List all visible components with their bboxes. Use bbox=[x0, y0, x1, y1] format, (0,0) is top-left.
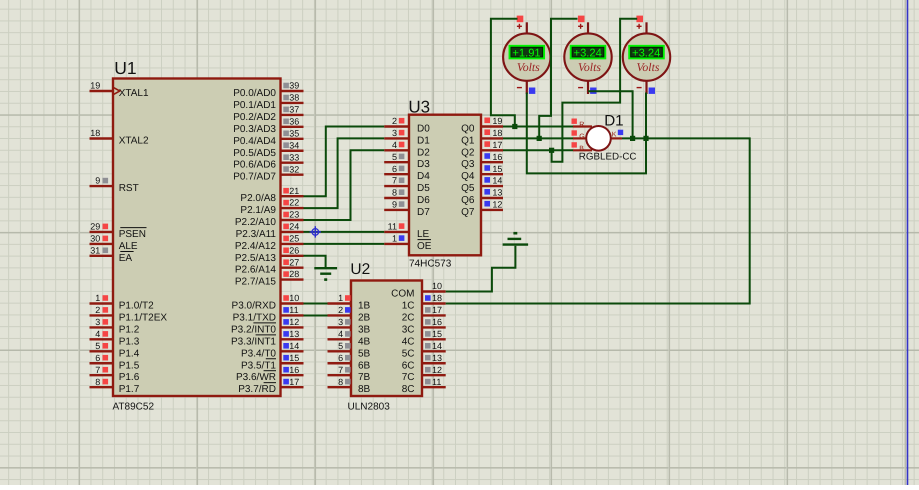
svg-text:U2: U2 bbox=[350, 261, 370, 278]
svg-text:P2.5/A13: P2.5/A13 bbox=[235, 253, 277, 264]
svg-text:AT89C52: AT89C52 bbox=[113, 401, 155, 412]
svg-text:U1: U1 bbox=[114, 58, 136, 78]
svg-text:OE: OE bbox=[417, 241, 432, 252]
svg-text:32: 32 bbox=[289, 164, 299, 174]
svg-text:12: 12 bbox=[492, 200, 502, 210]
svg-text:28: 28 bbox=[289, 269, 299, 279]
svg-text:P0.2/AD2: P0.2/AD2 bbox=[233, 112, 276, 123]
svg-text:P3.4/T0: P3.4/T0 bbox=[241, 348, 276, 359]
U1 pin 14 P3.4/T0 bbox=[241, 341, 304, 359]
wire VM2 - to node K bbox=[588, 91, 633, 138]
U2 pin 14 5C bbox=[402, 341, 446, 359]
U1 pin 7 P1.6 bbox=[90, 365, 140, 383]
sheet edge border (blue) bbox=[907, 0, 909, 485]
svg-text:P1.4: P1.4 bbox=[119, 348, 140, 359]
svg-text:6B: 6B bbox=[358, 360, 371, 371]
U1 pin 11 P3.1/TXD bbox=[233, 305, 304, 323]
svg-text:10: 10 bbox=[432, 281, 442, 291]
svg-text:4: 4 bbox=[392, 140, 397, 150]
svg-text:27: 27 bbox=[289, 257, 299, 267]
U1 pin 22 P2.1/A9 bbox=[240, 198, 303, 216]
node B junction bbox=[549, 148, 554, 153]
svg-text:5: 5 bbox=[392, 152, 397, 162]
svg-text:P2.2/A10: P2.2/A10 bbox=[235, 217, 277, 228]
U2 pin 12 7C bbox=[402, 365, 446, 383]
svg-text:P3.3/INT1: P3.3/INT1 bbox=[231, 336, 276, 347]
svg-text:31: 31 bbox=[90, 245, 100, 255]
U1 pin 1 P1.0/T2 bbox=[90, 293, 155, 311]
svg-text:COM: COM bbox=[391, 289, 414, 300]
svg-text:7C: 7C bbox=[402, 372, 415, 383]
svg-text:11: 11 bbox=[432, 377, 441, 387]
U2 pin 8 8B bbox=[328, 377, 371, 395]
svg-text:3: 3 bbox=[392, 128, 397, 138]
U1 pin 31 EA bbox=[90, 245, 134, 263]
U3 pin 4 D2 bbox=[384, 140, 430, 158]
svg-text:5B: 5B bbox=[358, 348, 371, 359]
svg-text:8: 8 bbox=[392, 188, 397, 198]
U3 pin 7 D5 bbox=[384, 176, 430, 194]
svg-text:12: 12 bbox=[289, 317, 299, 327]
svg-text:P0.1/AD1: P0.1/AD1 bbox=[233, 100, 276, 111]
svg-text:3C: 3C bbox=[402, 324, 415, 335]
svg-text:R: R bbox=[579, 122, 584, 129]
svg-text:D3: D3 bbox=[417, 159, 430, 170]
U1 pin 19 XTAL1 bbox=[90, 81, 149, 99]
svg-text:18: 18 bbox=[432, 293, 442, 303]
svg-text:Volts: Volts bbox=[637, 60, 660, 74]
svg-text:1: 1 bbox=[95, 293, 100, 303]
svg-text:30: 30 bbox=[90, 234, 100, 244]
svg-text:ULN2803: ULN2803 bbox=[348, 401, 391, 412]
svg-text:P3.0/RXD: P3.0/RXD bbox=[232, 301, 276, 312]
wire P2.4/A12 to U3 OE bbox=[304, 243, 385, 245]
svg-text:5: 5 bbox=[95, 341, 100, 351]
svg-text:+1.91: +1.91 bbox=[512, 47, 540, 59]
U2 pin 3 3B bbox=[328, 317, 371, 335]
svg-text:Q2: Q2 bbox=[461, 147, 475, 158]
U1 pin 36 P0.3/AD3 bbox=[233, 116, 303, 134]
svg-text:ALE: ALE bbox=[119, 241, 138, 252]
svg-text:2B: 2B bbox=[358, 312, 371, 323]
voltmeter VM1 (++1.91 Volts) bbox=[503, 16, 550, 94]
svg-text:22: 22 bbox=[289, 198, 299, 208]
svg-text:3B: 3B bbox=[358, 324, 371, 335]
U1 pin 8 P1.7 bbox=[90, 377, 140, 395]
svg-text:14: 14 bbox=[492, 176, 502, 186]
svg-text:19: 19 bbox=[90, 81, 100, 91]
node G junction bbox=[537, 136, 542, 141]
wire P2.1/A9 to U3 D1 bbox=[304, 138, 385, 208]
U3 pin 17 Q2 bbox=[461, 140, 503, 158]
U1 pin 3 P1.2 bbox=[90, 317, 140, 335]
svg-text:2: 2 bbox=[95, 305, 100, 315]
svg-text:7: 7 bbox=[392, 176, 397, 186]
D1 value label RGBLED-CC bbox=[579, 152, 637, 163]
U1 pin 16 P3.6/WR bbox=[236, 365, 304, 383]
U3 pin 5 D3 bbox=[384, 152, 430, 170]
svg-text:P2.7/A15: P2.7/A15 bbox=[235, 277, 277, 288]
svg-text:4B: 4B bbox=[358, 336, 371, 347]
U3 value label 74HC573 bbox=[409, 258, 452, 269]
svg-text:10: 10 bbox=[289, 293, 299, 303]
U2 pin 13 6C bbox=[402, 353, 446, 371]
svg-text:D4: D4 bbox=[417, 171, 430, 182]
svg-text:P2.6/A14: P2.6/A14 bbox=[235, 265, 277, 276]
svg-text:13: 13 bbox=[492, 188, 502, 198]
wire P2.5/A13 to ground bbox=[304, 256, 326, 268]
wire U2 COM to ground bbox=[446, 246, 516, 292]
svg-text:35: 35 bbox=[289, 128, 299, 138]
svg-text:P0.4/AD4: P0.4/AD4 bbox=[233, 136, 276, 147]
U1 pin 4 P1.3 bbox=[90, 329, 140, 347]
svg-text:7B: 7B bbox=[358, 372, 371, 383]
U1 reference label bbox=[114, 58, 136, 78]
U1 pin 13 P3.3/INT1 bbox=[231, 329, 304, 347]
svg-text:3: 3 bbox=[95, 317, 100, 327]
svg-text:2C: 2C bbox=[402, 312, 415, 323]
U1 pin 28 P2.7/A15 bbox=[235, 269, 304, 287]
U1 pin 37 P0.2/AD2 bbox=[233, 105, 303, 123]
svg-text:P2.3/A11: P2.3/A11 bbox=[236, 229, 277, 240]
U1 pin 6 P1.5 bbox=[90, 353, 140, 371]
svg-text:12: 12 bbox=[432, 365, 442, 375]
U1 pin 26 P2.5/A13 bbox=[235, 245, 304, 263]
svg-text:33: 33 bbox=[289, 152, 299, 162]
svg-text:4C: 4C bbox=[402, 336, 415, 347]
U1 pin 18 XTAL2 bbox=[90, 128, 149, 146]
svg-text:14: 14 bbox=[289, 341, 299, 351]
svg-text:8B: 8B bbox=[358, 384, 371, 395]
U1 pin 9 RST bbox=[90, 176, 139, 194]
U1 pin 39 P0.0/AD0 bbox=[233, 81, 303, 99]
svg-text:EA: EA bbox=[119, 253, 133, 264]
U2 pin 6 6B bbox=[328, 353, 371, 371]
U3 pin 3 D1 bbox=[384, 128, 430, 146]
origin marker on LE wire bbox=[310, 226, 321, 237]
svg-text:LE: LE bbox=[417, 229, 430, 240]
svg-text:15: 15 bbox=[492, 164, 502, 174]
svg-text:RGBLED-CC: RGBLED-CC bbox=[579, 152, 637, 163]
svg-text:6: 6 bbox=[392, 164, 397, 174]
svg-text:8C: 8C bbox=[402, 384, 415, 395]
svg-text:17: 17 bbox=[432, 305, 442, 315]
svg-text:36: 36 bbox=[289, 116, 299, 126]
U3 pin 6 D4 bbox=[384, 164, 430, 182]
svg-text:1B: 1B bbox=[358, 301, 371, 312]
svg-text:D1: D1 bbox=[417, 135, 430, 146]
svg-text:D2: D2 bbox=[417, 147, 430, 158]
IC U2 ULN2803 body bbox=[351, 281, 422, 397]
svg-text:26: 26 bbox=[289, 245, 299, 255]
wire VM2 + to node G bbox=[539, 19, 577, 139]
U3 pin 1 OE bbox=[384, 234, 432, 252]
svg-text:PSEN: PSEN bbox=[119, 229, 146, 240]
svg-text:17: 17 bbox=[492, 140, 502, 150]
svg-text:P0.7/AD7: P0.7/AD7 bbox=[233, 172, 276, 183]
U1 pin 33 P0.6/AD6 bbox=[233, 152, 303, 170]
voltmeter VM3 (++3.24 Volts) bbox=[623, 16, 670, 94]
svg-text:7: 7 bbox=[338, 365, 343, 375]
U1 pin 35 P0.4/AD4 bbox=[233, 128, 303, 146]
IC U1 AT89C52 body bbox=[113, 79, 281, 397]
svg-text:6C: 6C bbox=[402, 360, 415, 371]
wire U3 Q1 to LED G bbox=[503, 137, 573, 139]
svg-text:6: 6 bbox=[95, 353, 100, 363]
U2 value label ULN2803 bbox=[348, 401, 391, 412]
U1 pin 38 P0.1/AD1 bbox=[233, 93, 303, 111]
svg-text:23: 23 bbox=[289, 210, 299, 220]
U2 pin 18 1C bbox=[402, 293, 446, 311]
svg-text:Q4: Q4 bbox=[461, 171, 475, 182]
svg-text:P1.2: P1.2 bbox=[119, 324, 140, 335]
U2 pin 4 4B bbox=[328, 329, 371, 347]
svg-text:P0.3/AD3: P0.3/AD3 bbox=[233, 124, 276, 135]
ground symbol above U2 COM wire (inverted) bbox=[503, 233, 528, 244]
svg-text:+3.24: +3.24 bbox=[574, 47, 602, 59]
svg-text:9: 9 bbox=[95, 176, 100, 186]
U1 value label AT89C52 bbox=[113, 401, 155, 412]
svg-text:15: 15 bbox=[432, 329, 442, 339]
node R junction bbox=[512, 124, 517, 129]
U2 pin 16 3C bbox=[402, 317, 446, 335]
LED D1 RGBLED-CC bbox=[572, 119, 624, 153]
U1 pin 25 P2.4/A12 bbox=[235, 234, 304, 252]
svg-text:18: 18 bbox=[492, 128, 502, 138]
svg-text:2: 2 bbox=[338, 305, 343, 315]
U1 pin 17 P3.7/RD bbox=[238, 377, 303, 395]
svg-text:5: 5 bbox=[338, 341, 343, 351]
svg-text:P1.6: P1.6 bbox=[119, 372, 140, 383]
svg-text:XTAL1: XTAL1 bbox=[119, 88, 149, 99]
U3 pin 13 Q6 bbox=[461, 188, 503, 206]
svg-text:U3: U3 bbox=[408, 98, 430, 117]
svg-text:38: 38 bbox=[289, 93, 299, 103]
svg-text:16: 16 bbox=[432, 317, 442, 327]
U1 pin 5 P1.4 bbox=[90, 341, 140, 359]
svg-text:4: 4 bbox=[95, 329, 100, 339]
svg-text:+3.24: +3.24 bbox=[632, 47, 660, 59]
U3 pin 11 LE bbox=[384, 222, 429, 240]
U2 pin 5 5B bbox=[328, 341, 371, 359]
svg-text:8: 8 bbox=[338, 377, 343, 387]
svg-text:P2.1/A9: P2.1/A9 bbox=[240, 205, 276, 216]
U2 pin 2 2B bbox=[328, 305, 371, 323]
svg-text:3: 3 bbox=[338, 317, 343, 327]
node K junction 1 bbox=[630, 136, 635, 141]
svg-text:1C: 1C bbox=[402, 301, 415, 312]
svg-text:P3.2/INT0: P3.2/INT0 bbox=[231, 324, 276, 335]
svg-text:6: 6 bbox=[338, 353, 343, 363]
U1 pin 30 ALE bbox=[90, 234, 138, 252]
svg-text:D5: D5 bbox=[417, 183, 430, 194]
wire P3.0/RXD to U2 1B bbox=[304, 303, 328, 305]
U1 pin 27 P2.6/A14 bbox=[235, 257, 304, 275]
svg-text:9: 9 bbox=[392, 200, 397, 210]
U3 pin 16 Q3 bbox=[461, 152, 503, 170]
svg-text:P2.4/A12: P2.4/A12 bbox=[235, 241, 277, 252]
U1 pin 12 P3.2/INT0 bbox=[231, 317, 304, 335]
wire U3 Q0 to LED R bbox=[503, 126, 573, 128]
svg-text:5C: 5C bbox=[402, 348, 415, 359]
svg-text:4: 4 bbox=[338, 329, 343, 339]
svg-text:37: 37 bbox=[289, 105, 299, 115]
svg-text:74HC573: 74HC573 bbox=[409, 258, 452, 269]
U1 pin 34 P0.5/AD5 bbox=[233, 140, 303, 158]
U2 pin 10 COM bbox=[391, 281, 446, 299]
wire VM1 + to node R bbox=[491, 19, 518, 127]
svg-text:XTAL2: XTAL2 bbox=[119, 136, 149, 147]
D1 reference label bbox=[604, 113, 623, 130]
svg-text:D6: D6 bbox=[417, 195, 430, 206]
svg-text:Q7: Q7 bbox=[461, 207, 475, 218]
U2 pin 7 7B bbox=[328, 365, 371, 383]
U3 pin 8 D6 bbox=[384, 188, 430, 206]
U2 pin 1 1B bbox=[328, 293, 371, 311]
voltmeter VM2 (++3.24 Volts) bbox=[564, 16, 611, 94]
svg-text:Q0: Q0 bbox=[461, 124, 475, 135]
svg-text:13: 13 bbox=[432, 353, 442, 363]
U3 pin 15 Q4 bbox=[461, 164, 503, 182]
svg-text:Q6: Q6 bbox=[461, 195, 475, 206]
U2 reference label bbox=[350, 261, 370, 278]
svg-text:K: K bbox=[612, 131, 617, 138]
wire P2.2/A10 to U3 D2 bbox=[304, 150, 385, 220]
svg-text:19: 19 bbox=[492, 116, 502, 126]
wire P3.1/TXD to U2 2B bbox=[304, 314, 328, 316]
svg-text:17: 17 bbox=[289, 377, 299, 387]
ground symbol below P2.5 wire bbox=[314, 268, 337, 279]
svg-text:P3.7/RD: P3.7/RD bbox=[238, 384, 276, 395]
U2 pin 15 4C bbox=[402, 329, 446, 347]
svg-text:Q5: Q5 bbox=[461, 183, 475, 194]
svg-text:D1: D1 bbox=[604, 113, 623, 130]
svg-text:P3.1/TXD: P3.1/TXD bbox=[233, 312, 276, 323]
svg-text:Q1: Q1 bbox=[461, 135, 475, 146]
svg-text:16: 16 bbox=[289, 365, 299, 375]
svg-text:2: 2 bbox=[392, 116, 397, 126]
svg-text:P3.5/T1: P3.5/T1 bbox=[241, 360, 276, 371]
svg-text:11: 11 bbox=[388, 222, 397, 232]
wire U3 Q2 to LED B bbox=[503, 149, 573, 151]
svg-text:11: 11 bbox=[289, 305, 298, 315]
svg-text:P2.0/A8: P2.0/A8 bbox=[240, 193, 276, 204]
svg-text:13: 13 bbox=[289, 329, 299, 339]
U1 pin 32 P0.7/AD7 bbox=[233, 164, 303, 182]
U3 pin 2 D0 bbox=[384, 116, 430, 134]
U1 pin 23 P2.2/A10 bbox=[235, 210, 304, 228]
U3 pin 19 Q0 bbox=[461, 116, 503, 134]
wire P2.0/A8 to U3 D0 bbox=[304, 127, 385, 197]
svg-text:16: 16 bbox=[492, 152, 502, 162]
U3 pin 9 D7 bbox=[384, 200, 430, 218]
U1 pin 29 PSEN bbox=[90, 222, 147, 240]
U1 pin 24 P2.3/A11 bbox=[236, 222, 304, 240]
node K junction 2 bbox=[643, 136, 648, 141]
svg-text:15: 15 bbox=[289, 353, 299, 363]
wire P2.3/A11 to U3 LE bbox=[304, 231, 385, 233]
svg-text:D7: D7 bbox=[417, 207, 430, 218]
svg-text:G: G bbox=[579, 133, 584, 140]
svg-text:34: 34 bbox=[289, 140, 299, 150]
U3 pin 14 Q5 bbox=[461, 176, 503, 194]
svg-text:RST: RST bbox=[119, 183, 139, 194]
wire VM1 - to VM3 - (node K) bbox=[527, 93, 646, 174]
U1 pin 21 P2.0/A8 bbox=[240, 186, 303, 204]
svg-text:39: 39 bbox=[289, 81, 299, 91]
svg-text:P1.5: P1.5 bbox=[119, 360, 140, 371]
U3 pin 12 Q7 bbox=[461, 200, 503, 218]
svg-text:14: 14 bbox=[432, 341, 442, 351]
svg-text:P0.5/AD5: P0.5/AD5 bbox=[233, 148, 276, 159]
U3 reference label bbox=[408, 98, 430, 117]
svg-text:P1.0/T2: P1.0/T2 bbox=[119, 301, 154, 312]
svg-text:1: 1 bbox=[392, 234, 397, 244]
U3 pin 18 Q1 bbox=[461, 128, 503, 146]
svg-text:P1.3: P1.3 bbox=[119, 336, 140, 347]
U1 pin 15 P3.5/T1 bbox=[241, 353, 304, 371]
svg-text:25: 25 bbox=[289, 234, 299, 244]
svg-text:P1.7: P1.7 bbox=[119, 384, 140, 395]
svg-text:Volts: Volts bbox=[517, 60, 540, 74]
svg-text:Q3: Q3 bbox=[461, 159, 475, 170]
svg-text:D0: D0 bbox=[417, 124, 430, 135]
U1 pin 2 P1.1/T2EX bbox=[90, 305, 168, 323]
svg-text:18: 18 bbox=[90, 128, 100, 138]
svg-text:1: 1 bbox=[338, 293, 343, 303]
svg-text:Volts: Volts bbox=[578, 60, 601, 74]
svg-text:P0.0/AD0: P0.0/AD0 bbox=[233, 88, 276, 99]
svg-text:29: 29 bbox=[90, 222, 100, 232]
svg-text:P0.6/AD6: P0.6/AD6 bbox=[233, 160, 276, 171]
svg-text:21: 21 bbox=[289, 186, 299, 196]
U1 pin 10 P3.0/RXD bbox=[232, 293, 304, 311]
svg-text:8: 8 bbox=[95, 377, 100, 387]
U2 pin 17 2C bbox=[402, 305, 446, 323]
wire VM3 + to node B bbox=[552, 19, 638, 162]
U2 pin 11 8C bbox=[402, 377, 446, 395]
wire LED K to U2 1C bbox=[446, 138, 750, 303]
IC U3 74HC573 body bbox=[409, 115, 481, 256]
svg-text:7: 7 bbox=[95, 365, 100, 375]
svg-text:P1.1/T2EX: P1.1/T2EX bbox=[119, 312, 168, 323]
svg-text:P3.6/WR: P3.6/WR bbox=[236, 372, 276, 383]
svg-text:24: 24 bbox=[289, 222, 299, 232]
